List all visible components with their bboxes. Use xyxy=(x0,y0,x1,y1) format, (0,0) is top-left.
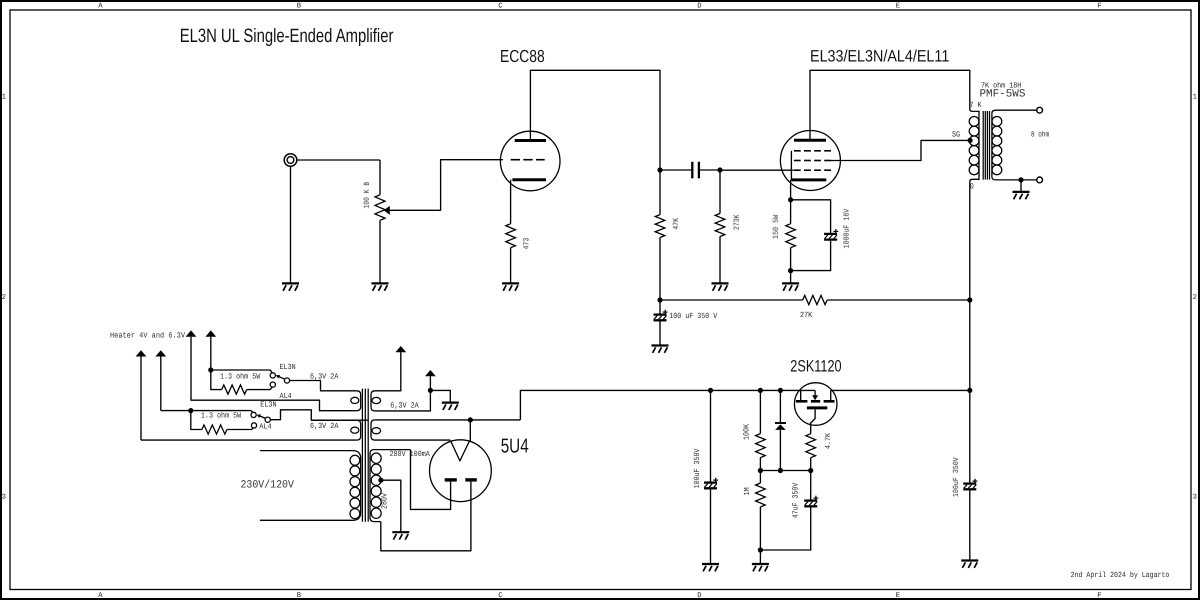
wire SW2 resistor branch right xyxy=(227,429,252,431)
wire node to coupling cap xyxy=(660,169,691,171)
resistor 47K xyxy=(655,215,665,238)
wire grid node to EL33 grid xyxy=(720,169,794,171)
svg-text:100 uF 350 V: 100 uF 350 V xyxy=(669,312,717,321)
node dot filament right xyxy=(468,417,473,422)
wire source rail right xyxy=(831,389,970,391)
capacitor 1000uF 16V xyxy=(824,233,837,235)
EL33 grid g3 dashes xyxy=(794,150,801,152)
svg-text:100 K B: 100 K B xyxy=(363,182,372,209)
svg-text:1.3 ohm 5W: 1.3 ohm 5W xyxy=(220,372,261,381)
svg-text:E: E xyxy=(896,3,900,11)
wire EL33 screen g2 to UL tap xyxy=(831,140,968,160)
wire SW1 common to transformer xyxy=(290,381,357,391)
switch SW2 throw EL3N xyxy=(251,412,256,417)
power flag heater B xyxy=(155,350,166,356)
node dot switch SW1 feed xyxy=(208,367,213,372)
svg-text:3: 3 xyxy=(2,494,6,502)
wire flag C stem and AL4 return xyxy=(191,337,357,411)
mosfet source stub xyxy=(830,390,832,400)
svg-text:EL3N UL Single-Ended Amplifier: EL3N UL Single-Ended Amplifier xyxy=(180,26,394,47)
wire B+ node down to regulator output xyxy=(969,300,971,390)
transformer T2 core xyxy=(982,111,984,180)
node dot cathode bottom xyxy=(788,268,793,273)
wire SW1 resistor branch right xyxy=(247,389,271,391)
wire filament winding bottom lead xyxy=(375,439,450,441)
svg-text:Heater 4V and 6.3V: Heater 4V and 6.3V xyxy=(110,332,185,341)
power flag heater D xyxy=(205,330,216,336)
mosfet channel bars xyxy=(796,400,808,403)
wire 273K top xyxy=(719,170,721,214)
svg-text:B: B xyxy=(297,592,302,600)
node dot secondary ground xyxy=(1018,177,1023,182)
wire 100K bottom xyxy=(759,458,761,471)
node dot 100uF branch xyxy=(708,388,713,393)
node dot B+ right xyxy=(967,297,972,302)
wire 100uF input to ground xyxy=(710,489,712,564)
wire SW2 direct branch xyxy=(161,410,251,412)
svg-text:AL4: AL4 xyxy=(259,422,271,431)
wire SW2 common to transformer xyxy=(270,410,368,420)
ground 100uF output xyxy=(961,559,978,561)
node dot B+ left xyxy=(657,297,662,302)
5U4 anode plate right xyxy=(465,478,477,481)
svg-text:F: F xyxy=(1097,592,1101,600)
svg-text:47K: 47K xyxy=(672,218,681,230)
transformer T1 core xyxy=(361,389,363,522)
wire 5U4 filament top lead / B raw rail xyxy=(375,419,520,421)
svg-text:A: A xyxy=(98,3,103,11)
switch SW1 throw EL3N xyxy=(270,373,275,378)
power flag heater C xyxy=(186,330,197,336)
capacitor 100 uF 350 V xyxy=(654,313,667,315)
EL33 cathode plate xyxy=(791,178,826,181)
svg-text:EL33/EL3N/AL4/EL11: EL33/EL3N/AL4/EL11 xyxy=(810,47,949,65)
svg-text:150 5W: 150 5W xyxy=(772,215,781,239)
switch SW1 throw AL4 xyxy=(270,382,275,387)
svg-text:473: 473 xyxy=(522,237,531,249)
switch SW2 throw AL4 xyxy=(251,423,256,428)
svg-text:1.3 ohm 5W: 1.3 ohm 5W xyxy=(201,412,242,421)
wire B+ cap drop xyxy=(659,300,661,314)
wire ECC88 anode up and over to node xyxy=(530,70,660,170)
resistor 1.3 ohm 5W upper xyxy=(222,385,247,394)
mosfet gate bar xyxy=(807,406,827,409)
svg-text:C: C xyxy=(498,3,503,11)
node dot cathode xyxy=(788,197,793,202)
svg-text:27K: 27K xyxy=(800,311,812,320)
mosfet body arrow xyxy=(814,390,816,395)
wire 473 to ground xyxy=(510,248,512,284)
svg-text:100K: 100K xyxy=(743,424,752,440)
svg-text:6,3V 2A: 6,3V 2A xyxy=(310,422,339,431)
resistor 100K xyxy=(756,434,766,458)
wire flag D stem xyxy=(210,337,212,370)
svg-text:4.7K: 4.7K xyxy=(824,433,833,449)
wire heater ground node to flag xyxy=(429,376,431,390)
svg-text:C: C xyxy=(498,592,503,600)
resistor 473 xyxy=(506,224,516,248)
wire ECC88 cathode lead xyxy=(510,180,512,224)
wire 1M bottom xyxy=(759,507,761,550)
ECC88 cathode plate xyxy=(512,178,546,181)
5U4 anode plate left xyxy=(445,478,457,481)
svg-text:1: 1 xyxy=(2,94,6,102)
wire SW1 resistor branch xyxy=(211,370,222,390)
node dot heater ground node xyxy=(428,388,433,393)
wire 273K to ground xyxy=(719,237,721,284)
switch SW1 lever xyxy=(279,377,285,380)
EL33 grid g1 dashes xyxy=(794,169,801,171)
svg-text:280V: 280V xyxy=(381,493,390,509)
mosfet drain stub xyxy=(800,390,802,400)
wire cathode node to 1000uF xyxy=(791,200,831,233)
wire B+ rail left segment xyxy=(660,299,803,301)
wire heater ground node to ground xyxy=(430,390,450,402)
wire HT center tap to ground xyxy=(381,480,401,532)
diode D1 xyxy=(775,422,786,424)
ground 100uF input xyxy=(702,563,719,565)
switch SW2 common xyxy=(265,417,270,422)
node dot grid/273K junction xyxy=(717,167,722,172)
EL33 anode plate xyxy=(794,139,826,142)
wire gate node row xyxy=(760,470,810,472)
switch SW1 common xyxy=(284,378,289,383)
svg-text:8 ohm: 8 ohm xyxy=(1031,131,1049,140)
node dot anode/cap junction xyxy=(657,167,662,172)
wire cathode node to ground xyxy=(790,271,792,284)
transformer T2 secondary winding xyxy=(992,110,1037,180)
resistor 1.3 ohm 5W lower xyxy=(202,425,227,434)
input jack J1 xyxy=(284,154,297,167)
transformer T1 winding 6.3V upper left xyxy=(357,391,361,411)
svg-text:47uF 350V: 47uF 350V xyxy=(792,482,801,518)
svg-text:EL3N: EL3N xyxy=(280,363,296,372)
wire drain rail left xyxy=(520,390,815,420)
svg-text:100uF 350V: 100uF 350V xyxy=(693,448,702,488)
wire SW1 direct branch xyxy=(211,369,270,371)
ground HT center tap xyxy=(392,531,409,533)
node dot UL screen tap SG xyxy=(968,138,973,143)
ground pot xyxy=(372,282,389,284)
wire 47uF bottom to node xyxy=(760,507,810,550)
wire right plate to HT bottom xyxy=(381,482,471,551)
node dot switch SW2 feed xyxy=(188,408,193,413)
svg-text:2: 2 xyxy=(2,294,6,302)
EL33 g3-cathode tie xyxy=(790,151,792,180)
wire T1 winding lower-left top lead xyxy=(311,419,357,421)
node dot gate node right xyxy=(808,468,813,473)
svg-text:6,3V 2A: 6,3V 2A xyxy=(390,401,419,410)
wire 100K top xyxy=(759,390,761,433)
resistor 4.7K xyxy=(806,434,816,458)
wire diode bottom xyxy=(779,430,781,471)
wire 100uF output to ground xyxy=(969,490,971,561)
ground jack xyxy=(282,282,299,284)
capacitor 47uF 350V xyxy=(810,471,812,501)
node dot regulator output xyxy=(967,388,972,393)
svg-text:ECC88: ECC88 xyxy=(500,46,545,66)
wire left plate to HT top xyxy=(411,450,451,510)
wire 1000uF to cathode bottom node xyxy=(791,241,831,271)
ground 473 xyxy=(502,282,519,284)
switch SW2 lever xyxy=(260,416,266,419)
svg-text:230V/120V: 230V/120V xyxy=(241,480,295,492)
svg-text:D: D xyxy=(697,3,701,11)
svg-text:1000uF 16V: 1000uF 16V xyxy=(843,208,852,248)
svg-text:3: 3 xyxy=(1193,494,1197,502)
transformer T1 winding 6.3V lower left xyxy=(357,420,361,440)
svg-text:2: 2 xyxy=(1193,294,1197,302)
wire EL33 anode to transformer primary xyxy=(810,70,970,140)
node dot 100K branch xyxy=(758,388,763,393)
capacitor 100uF 350V input xyxy=(710,390,712,482)
svg-text:E: E xyxy=(896,592,900,600)
transformer T1 winding HT 280V xyxy=(370,450,411,522)
ground 273K xyxy=(712,282,729,284)
EL33 grid g2 dashes xyxy=(794,160,801,162)
resistor 27K xyxy=(803,295,827,304)
mosfet Q1 2SK1120 envelope xyxy=(794,383,837,426)
ECC88 anode plate xyxy=(515,139,546,142)
transformer T1 primary 230V/120V xyxy=(260,451,361,521)
wire filament right to raw rail xyxy=(469,420,471,441)
ground secondary xyxy=(1013,191,1030,193)
node dot gate node mid xyxy=(778,468,783,473)
wire 47K top xyxy=(659,170,661,215)
wire jack to potentiometer xyxy=(297,159,380,161)
wire T1 upper-right bottom lead xyxy=(375,390,430,411)
wire pot bottom to ground xyxy=(379,220,381,283)
pot wiper arrow xyxy=(384,206,390,215)
wire bottom node to ground xyxy=(759,550,761,564)
svg-text:SG: SG xyxy=(952,131,960,140)
terminal output bottom xyxy=(1037,177,1043,183)
wire SW2 resistor branch xyxy=(191,411,202,430)
triode U1 ECC88 envelope xyxy=(500,131,560,191)
transformer T2 primary winding xyxy=(970,109,979,184)
ground heater winding xyxy=(442,402,459,404)
ground EL33 cathode xyxy=(782,282,799,284)
transformer T1 winding 5U4 filament xyxy=(371,420,375,440)
wire 47K to B+ rail xyxy=(659,238,661,301)
resistor 273K xyxy=(715,214,725,237)
node dot HT center tap xyxy=(378,478,383,483)
node dot bottom node xyxy=(758,547,763,552)
svg-text:A: A xyxy=(98,592,103,600)
wire B+ rail right segment xyxy=(827,299,970,301)
wire jack to ground xyxy=(290,166,292,283)
wire secondary ground drop xyxy=(1020,180,1022,192)
svg-text:280V 100mA: 280V 100mA xyxy=(390,450,431,459)
5U4 filament V xyxy=(450,440,469,461)
rectifier U3 5U4 envelope xyxy=(430,440,492,502)
wire pot top xyxy=(379,160,381,195)
potentiometer RV1 100K xyxy=(375,195,385,221)
svg-text:D: D xyxy=(697,592,701,600)
power flag heater A xyxy=(136,350,147,356)
svg-text:7 K: 7 K xyxy=(970,101,982,110)
ECC88 grid dashes xyxy=(511,159,520,161)
transformer T1 winding 6.3V upper right xyxy=(371,391,375,411)
power flag preamp heater xyxy=(425,370,436,376)
svg-text:2SK1120: 2SK1120 xyxy=(790,358,841,376)
terminal output top xyxy=(1037,107,1043,113)
svg-text:PMF-5WS: PMF-5WS xyxy=(980,89,1026,101)
ground B+ cap xyxy=(652,344,669,346)
svg-text:273K: 273K xyxy=(733,214,742,230)
node dot diode branch xyxy=(778,388,783,393)
svg-text:1: 1 xyxy=(1193,94,1197,102)
wire 4.7K to gate node xyxy=(810,458,812,471)
wire diode top xyxy=(779,390,781,422)
node dot gate node left xyxy=(758,468,763,473)
mosfet gate lead xyxy=(811,409,815,433)
svg-text:F: F xyxy=(1097,3,1101,11)
svg-text:B: B xyxy=(297,3,302,11)
wire EL33 cathode lead xyxy=(790,180,792,200)
wire T1 upper-right top lead to flag xyxy=(375,352,401,391)
wire flag A stem xyxy=(140,357,142,441)
wire B+ cap to ground xyxy=(659,321,661,346)
svg-text:5U4: 5U4 xyxy=(501,435,529,457)
power flag rectifier heater xyxy=(395,346,406,352)
resistor 150 5W xyxy=(790,200,792,224)
svg-text:AL4: AL4 xyxy=(280,392,292,401)
capacitor C1 coupling xyxy=(691,162,693,179)
ground divider xyxy=(752,563,769,565)
resistor 1M xyxy=(759,471,761,484)
wire primary bottom to B+ rail xyxy=(969,183,971,300)
svg-text:100uF 350V: 100uF 350V xyxy=(952,457,961,497)
svg-text:EL3N: EL3N xyxy=(260,400,276,409)
wire wiper to ECC88 grid xyxy=(389,160,503,211)
wire heater return rail xyxy=(141,439,357,441)
pentode U2 EL33 envelope xyxy=(780,131,840,191)
wire cap to grid node xyxy=(700,169,720,171)
svg-text:2nd April 2024 by Lagarto: 2nd April 2024 by Lagarto xyxy=(1071,571,1170,580)
wire flag B stem xyxy=(160,357,162,411)
svg-text:1M: 1M xyxy=(743,487,752,495)
capacitor 100uF 350V output xyxy=(969,390,971,483)
